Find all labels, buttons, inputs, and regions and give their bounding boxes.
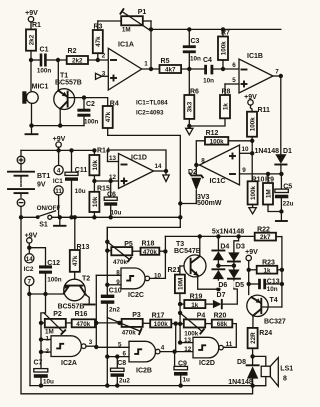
potentiometer P1 1M [98, 9, 151, 69]
wire IC2C output pin 10 [150, 251, 166, 278]
op-amp IC1C (mirrored) [200, 145, 249, 185]
resistor R14 10k [89, 148, 110, 192]
resistor R7 100k [218, 27, 230, 71]
svg-text:2: 2 [46, 348, 50, 355]
node (IC1B output pin 7) [279, 74, 283, 78]
svg-text:R21: R21 [168, 267, 181, 274]
transistor T3 BC547B [174, 241, 206, 277]
svg-text:4k7: 4k7 [165, 67, 176, 74]
svg-text:BC557B: BC557B [55, 80, 82, 87]
svg-text:2u2: 2u2 [119, 378, 130, 385]
node (bus / switched rail) [178, 215, 182, 219]
svg-text:1k: 1k [263, 267, 271, 274]
resistor R4 47k [84, 98, 119, 136]
svg-text:R17: R17 [152, 312, 165, 319]
resistor R16 470k [72, 311, 97, 328]
potentiometer P2 1M [39, 294, 72, 336]
svg-text:100k: 100k [154, 321, 169, 328]
svg-text:100n: 100n [47, 277, 62, 284]
node (battery minus) [19, 215, 23, 219]
node (R16 / P3 / bus) [94, 321, 98, 325]
capacitor C4 10n [203, 57, 239, 85]
wire battery minus bus (left edge and bottom) [21, 217, 253, 393]
svg-text:ON/OFF: ON/OFF [37, 205, 61, 212]
svg-text:R5: R5 [161, 58, 170, 65]
svg-text:100n: 100n [37, 68, 52, 75]
svg-text:4: 4 [57, 168, 61, 175]
svg-text:IC2A: IC2A [61, 360, 77, 367]
svg-text:IC2B: IC2B [136, 368, 152, 375]
NAND gate IC2A [46, 335, 93, 367]
svg-text:R20: R20 [214, 312, 227, 319]
svg-text:100n: 100n [84, 119, 99, 126]
svg-text:100k: 100k [250, 186, 257, 201]
svg-text:4: 4 [161, 345, 165, 352]
wire IC1D output pin 14 [154, 170, 167, 172]
svg-text:100k: 100k [210, 138, 225, 145]
svg-text:IC2C: IC2C [128, 292, 144, 299]
wire IC1B output [273, 75, 281, 77]
svg-text:P2: P2 [53, 311, 62, 318]
svg-text:7: 7 [275, 69, 279, 76]
+9V supply terminal (R11) [244, 94, 257, 112]
svg-text:C8: C8 [117, 360, 126, 367]
op-amp IC1B [232, 53, 279, 93]
svg-text:C1: C1 [40, 47, 49, 54]
node (R14/R15/pin12) [92, 179, 96, 183]
svg-text:D4: D4 [220, 244, 229, 251]
svg-text:68k: 68k [217, 321, 228, 328]
microphone MIC1 [22, 60, 48, 126]
svg-text:D5: D5 [235, 282, 244, 289]
resistor R3 47k [93, 21, 103, 62]
svg-text:5: 5 [232, 77, 236, 84]
svg-text:C2: C2 [86, 101, 95, 108]
wire IC1C pin 9 [240, 173, 282, 175]
wire feedback bus x96 [95, 275, 97, 347]
svg-text:1N4148: 1N4148 [254, 148, 279, 155]
svg-text:C3: C3 [191, 38, 200, 45]
NAND gate IC2B [118, 341, 165, 374]
svg-text:LS1: LS1 [280, 366, 293, 373]
diode D7 [213, 279, 237, 309]
op-amp IC1D [109, 154, 162, 189]
svg-text:R2: R2 [68, 48, 77, 55]
ground (open triangle under R10) [249, 208, 256, 214]
svg-text:10M: 10M [177, 278, 184, 290]
+9V supply terminal (top left) [25, 10, 38, 29]
resistor R13 47k [70, 215, 90, 286]
wire IC2A output pin 3 [86, 346, 96, 347]
svg-text:1N4148: 1N4148 [228, 379, 253, 386]
wire IC2B output pin 4 to IC2D pin 12 [160, 349, 193, 353]
svg-text:P1: P1 [138, 9, 147, 16]
node (bus / D2 wire) [178, 201, 182, 205]
wire IC2B pin 5 [96, 346, 129, 348]
wire IC2 ground to bottom rail [29, 294, 64, 386]
wire [31, 59, 40, 61]
IC2 power pins 14 / 7 [24, 248, 34, 296]
capacitor C2 100n [77, 98, 98, 126]
resistor R6 3k3 [184, 69, 199, 126]
resistor R17 100k [150, 312, 180, 328]
resistor R15 10k [89, 186, 110, 220]
svg-text:10u: 10u [43, 379, 54, 386]
node B (C1/R2/T1 base junction) [56, 58, 60, 62]
svg-text:470k: 470k [122, 329, 137, 336]
svg-text:S1: S1 [39, 222, 48, 229]
resistor R18 470k [141, 240, 166, 256]
wire IC2C pin 8 [96, 274, 121, 276]
NAND gate IC2D [184, 337, 233, 367]
+9V supply terminal (IC2 section) [25, 233, 38, 250]
potentiometer P3 470k [96, 312, 150, 336]
wire R17/P4 riser to pin 12 node [174, 321, 178, 351]
capacitor C9 1u [174, 352, 190, 388]
wire R4 to reference bus [108, 135, 181, 227]
wire IC2B pin 6 [105, 354, 129, 358]
svg-text:12: 12 [184, 346, 192, 353]
svg-text:11: 11 [226, 341, 233, 348]
svg-text:P3: P3 [132, 312, 141, 319]
svg-text:2k2: 2k2 [28, 34, 35, 45]
svg-text:3k3: 3k3 [187, 101, 194, 112]
ground (open triangle under R6) [186, 128, 193, 135]
svg-text:P4: P4 [197, 312, 206, 319]
wire rail B to lower section bus [107, 227, 180, 241]
wire bottom ground rail [30, 385, 253, 387]
svg-text:470k: 470k [143, 249, 158, 256]
svg-text:100k: 100k [220, 41, 227, 56]
svg-text:47k: 47k [72, 255, 79, 266]
svg-text:10k: 10k [92, 159, 99, 170]
svg-text:10u: 10u [111, 210, 122, 217]
wire section bus x107 [106, 227, 108, 385]
resistor R5 4k7 [160, 58, 205, 74]
svg-text:IC2=4093: IC2=4093 [136, 110, 164, 117]
wire IC2D pin 13 [178, 340, 193, 344]
svg-text:1k: 1k [191, 302, 199, 309]
wire T4 base bus [281, 237, 283, 307]
diode D4 [212, 236, 229, 265]
svg-text:10k: 10k [92, 196, 99, 207]
svg-text:MIC1: MIC1 [32, 84, 49, 91]
capacitor C6 10u [104, 179, 121, 220]
wire pin 12 [94, 180, 118, 182]
node (diode mid left) [216, 264, 236, 268]
wire IC2C pin 9 [105, 283, 121, 287]
svg-text:BC327: BC327 [264, 319, 286, 326]
svg-text:8: 8 [201, 158, 205, 165]
diode D3 [228, 236, 245, 269]
wire IC1A output [142, 68, 160, 70]
svg-text:BC547B: BC547B [174, 248, 201, 255]
svg-text:10: 10 [241, 146, 249, 153]
svg-text:14: 14 [154, 163, 162, 170]
svg-text:R18: R18 [142, 240, 155, 247]
wire IC1B pin5 [225, 83, 239, 85]
ground (bar, MIC1) [26, 126, 38, 135]
svg-text:9V: 9V [37, 182, 46, 189]
svg-text:470k: 470k [76, 321, 91, 328]
node (R18 / IC2C out riser / diode rail) [163, 249, 167, 253]
svg-text:BT1: BT1 [37, 173, 50, 180]
node (MIC1 ground rail) [29, 123, 33, 127]
svg-text:IC1=TL084: IC1=TL084 [136, 100, 168, 107]
node (R5/C3/C4/R6) [187, 67, 191, 71]
resistor R2 2k2 [58, 48, 108, 65]
svg-text:T1: T1 [60, 73, 68, 80]
resistor R21 10M [168, 266, 185, 304]
capacitor C8 2u2 [111, 357, 131, 388]
wire T1 base to C2/R4 node [68, 95, 87, 99]
node (P1/C3 top rail) [149, 27, 153, 31]
switch S1 ON/OFF [21, 205, 180, 229]
capacitor C5 22u [275, 172, 294, 214]
svg-text:IC1A: IC1A [118, 42, 134, 49]
potentiometer P4 100k [178, 304, 205, 343]
svg-text:14: 14 [26, 256, 34, 263]
node arrow (reference rail, down) [163, 171, 169, 182]
wire R11 node to pin10 and R10 [240, 141, 255, 182]
svg-text:2n2: 2n2 [109, 307, 120, 314]
svg-text:47k: 47k [105, 111, 112, 122]
svg-text:T4: T4 [270, 297, 278, 304]
NAND gate IC2C [116, 268, 161, 299]
wire ground rail of input stage [32, 125, 85, 127]
svg-text:100k: 100k [249, 117, 256, 132]
svg-text:IC1B: IC1B [247, 53, 263, 60]
resistor R11 100k [247, 107, 270, 143]
text IC notes [136, 100, 168, 117]
resistor R10 100k [248, 176, 265, 207]
svg-text:R1: R1 [32, 22, 41, 29]
potentiometer P5 470k [105, 240, 140, 266]
node (bus to rail) [105, 383, 109, 387]
svg-text:9: 9 [242, 167, 246, 174]
svg-text:12: 12 [109, 174, 117, 181]
resistor R8 1k [189, 84, 230, 126]
resistor R1 2k2 [26, 22, 41, 60]
resistor R20 68k [205, 312, 236, 347]
svg-text:10n: 10n [203, 78, 214, 85]
diode D8 1N4148 [228, 356, 258, 385]
node (R6/R8 ground) [187, 124, 191, 128]
IC1 power pins 4 / 11 [53, 150, 63, 217]
resistor R19 1k [180, 294, 213, 309]
svg-text:D3: D3 [236, 244, 245, 251]
svg-text:10n: 10n [267, 286, 278, 293]
svg-text:2k7: 2k7 [260, 234, 271, 241]
diode D6 [212, 269, 229, 291]
svg-text:IC2: IC2 [24, 266, 34, 273]
+9V supply terminal (T4) [245, 249, 258, 295]
svg-text:IC2D: IC2D [199, 360, 215, 367]
svg-text:10n: 10n [190, 56, 201, 63]
capacitor C3 10n [183, 27, 201, 69]
transistor T4 BC327 [247, 295, 286, 328]
wire T3 collector to diode rail [199, 236, 201, 256]
node (IC1C pin 8 / R12 / D2) [194, 163, 199, 167]
diode D1 1N4148 [254, 76, 292, 174]
ground (bar under C5/R9) [276, 212, 287, 222]
capacitor C13 10n [247, 279, 285, 294]
svg-text:1M: 1M [122, 27, 131, 34]
capacitor C10 2n2 [101, 287, 122, 313]
ground (bar under T2) [84, 304, 95, 306]
svg-text:BC557B: BC557B [58, 303, 85, 310]
resistor R22 2k7 [255, 227, 282, 242]
diode D5 [228, 270, 246, 290]
svg-text:10u: 10u [75, 188, 86, 195]
svg-text:47k: 47k [95, 36, 102, 47]
node (R21 / R19 / P4 wiper) [178, 302, 182, 306]
wire IC2A input bus [39, 323, 51, 369]
svg-text:2k2: 2k2 [72, 58, 83, 65]
ground (bar under S1 node) [54, 215, 66, 226]
wire +9V rail (battery section) [21, 149, 94, 151]
svg-text:D8: D8 [237, 359, 246, 366]
node (D8 bottom / rail) [250, 384, 254, 388]
resistor R12 100k [196, 130, 252, 165]
svg-text:1: 1 [144, 61, 148, 68]
svg-text:8: 8 [283, 376, 287, 383]
svg-text:1M: 1M [265, 189, 272, 198]
capacitor C11 10u [65, 148, 87, 219]
svg-text:R12: R12 [206, 130, 219, 137]
svg-text:C7: C7 [34, 360, 43, 367]
svg-text:IC1C: IC1C [210, 178, 226, 185]
wire T3 emitter [198, 275, 219, 289]
svg-text:+9V: +9V [245, 249, 258, 256]
svg-text:6: 6 [232, 62, 236, 69]
svg-text:C4: C4 [203, 57, 212, 64]
svg-text:2: 2 [102, 53, 106, 60]
zener diode D2 3V3 500mW [180, 165, 222, 207]
svg-text:22u: 22u [283, 200, 294, 207]
svg-text:3: 3 [89, 339, 93, 346]
svg-text:5x1N4148: 5x1N4148 [212, 229, 244, 236]
wire to T1 [57, 60, 59, 91]
resistor R9 1M [263, 172, 281, 212]
svg-text:1k: 1k [222, 103, 229, 111]
node (IC1D output) [164, 169, 168, 173]
svg-text:IC1: IC1 [53, 178, 63, 185]
svg-text:D6: D6 [218, 282, 227, 289]
node (IC2A out / IC2B pin5 / feedback bus) [94, 345, 98, 349]
wire top feedback rail [151, 28, 281, 30]
svg-text:D7: D7 [217, 292, 226, 299]
capacitor C1 100n [37, 47, 58, 75]
svg-text:1u: 1u [183, 377, 191, 384]
+9V supply terminal (battery section) [53, 136, 66, 153]
wire diode network top rail [165, 234, 254, 251]
transistor T2 BC557B [58, 276, 91, 311]
node arrow (IC1A pin 3 reference input) [96, 73, 109, 79]
svg-text:470k: 470k [113, 259, 128, 266]
wire IC1D pin13 feedback loop [108, 150, 167, 171]
svg-text:T2: T2 [82, 276, 90, 283]
node (R24 / D8 / LS1) [250, 354, 254, 358]
battery BT1 9V [8, 150, 50, 217]
transistor T1 BC557B [54, 73, 82, 128]
svg-text:500mW: 500mW [197, 200, 222, 207]
svg-text:R24: R24 [259, 330, 272, 337]
svg-text:1: 1 [46, 335, 50, 342]
svg-text:22R: 22R [250, 332, 257, 344]
svg-text:C10: C10 [109, 287, 122, 294]
svg-text:R11: R11 [258, 107, 271, 114]
op-amp IC1A [102, 42, 149, 91]
capacitor C7 10u [34, 360, 55, 388]
loudspeaker LS1 8 ohm [253, 356, 294, 386]
capacitor C12 100n [29, 248, 61, 296]
resistor R23 1k [247, 260, 285, 275]
node (pin1/P1 feedback) [149, 67, 153, 71]
svg-text:D1: D1 [283, 148, 292, 155]
svg-text:11: 11 [55, 188, 62, 195]
resistor R24 22R [248, 328, 273, 357]
node A (R1/C1/MIC1 junction) [29, 58, 33, 62]
svg-text:R16: R16 [75, 311, 88, 318]
svg-text:7: 7 [28, 279, 32, 286]
